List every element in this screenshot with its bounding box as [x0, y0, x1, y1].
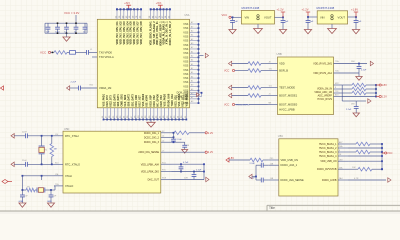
svg-text:10K: 10K	[352, 167, 356, 169]
svg-text:VCC: VCC	[40, 51, 46, 55]
svg-text:L2: L2	[162, 136, 164, 138]
svg-text:VSS: VSS	[183, 85, 188, 88]
svg-text:MCP/NT-1308: MCP/NT-1308	[242, 6, 260, 10]
svg-text:VSS: VSS	[183, 77, 188, 80]
svg-text:IO5_VSP0: IO5_VSP0	[146, 94, 149, 106]
svg-text:VSS: VSS	[183, 27, 188, 30]
svg-text:AF7: AF7	[339, 141, 342, 144]
svg-text:VDD_USB_UN: VDD_USB_UN	[320, 160, 336, 163]
svg-text:VDD_3V3_CPU_IO8: VDD_3V3_CPU_IO8	[140, 21, 143, 45]
svg-text:MCP/NT-1308: MCP/NT-1308	[317, 6, 335, 10]
svg-text:8: 8	[335, 87, 336, 89]
svg-text:RTC_XTALO: RTC_XTALO	[65, 163, 80, 167]
svg-text:IO17_U2T: IO17_U2T	[139, 95, 142, 107]
svg-text:1.8V: 1.8V	[229, 156, 235, 160]
svg-text:VSS: VSS	[183, 81, 188, 84]
svg-text:HVCC_BIAS1_2: HVCC_BIAS1_2	[319, 147, 337, 150]
svg-text:VSS: VSS	[183, 44, 188, 47]
svg-text:VSS_PAD5: VSS_PAD5	[185, 93, 188, 106]
svg-text:VCC = 3.3V: VCC = 3.3V	[64, 11, 79, 15]
svg-text:A7: A7	[191, 21, 193, 24]
svg-text:SD0_DAT2: SD0_DAT2	[128, 94, 131, 107]
svg-text:DCDC_DIG_1: DCDC_DIG_1	[144, 132, 160, 135]
svg-text:TX0 VP/CLA: TX0 VP/CLA	[99, 55, 114, 59]
svg-text:IO21_SD1: IO21_SD1	[175, 94, 178, 106]
svg-text:VSS: VSS	[183, 73, 188, 76]
svg-text:TXD0_UA1: TXD0_UA1	[171, 93, 174, 106]
svg-text:HVCC_BIAS1_4: HVCC_BIAS1_4	[319, 155, 337, 158]
svg-text:BOOT_MODE1: BOOT_MODE1	[279, 94, 298, 98]
svg-text:HVCC_LPBB: HVCC_LPBB	[279, 108, 295, 112]
svg-text:U5B: U5B	[277, 52, 282, 56]
svg-text:A1: A1	[191, 71, 193, 74]
svg-text:BOOT_MODE0: BOOT_MODE0	[279, 103, 298, 107]
svg-text:HVCC_BIAS1_3: HVCC_BIAS1_3	[319, 151, 337, 154]
svg-text:K10: K10	[55, 163, 58, 165]
svg-text:VDD_RVVS_2M1: VDD_RVVS_2M1	[313, 63, 332, 66]
svg-text:L5: L5	[162, 140, 164, 142]
svg-text:RXD0_UA0: RXD0_UA0	[167, 93, 170, 106]
svg-text:A2: A2	[191, 38, 193, 41]
svg-text:VCC: VCC	[224, 104, 229, 107]
svg-text:U18: U18	[339, 159, 342, 161]
svg-text:VSS: VSS	[183, 69, 188, 72]
svg-text:+3V3: +3V3	[156, 3, 162, 5]
svg-text:BGR_B: BGR_B	[279, 69, 288, 73]
svg-text:IO22_SC1: IO22_SC1	[182, 94, 185, 106]
svg-text:DCDC_DIG_2: DCDC_DIG_2	[144, 136, 160, 139]
svg-text:VSS_PAD3: VSS_PAD3	[164, 93, 167, 106]
svg-text:A3: A3	[191, 100, 193, 103]
svg-text:SD2_DAT0: SD2_DAT0	[113, 94, 116, 107]
svg-text:4.7uF: 4.7uF	[183, 162, 189, 164]
svg-text:2.2uF: 2.2uF	[250, 163, 256, 165]
svg-text:J1: J1	[269, 94, 271, 96]
svg-text:A4: A4	[191, 34, 193, 37]
svg-text:+1.8V: +1.8V	[351, 8, 358, 12]
svg-text:A1: A1	[191, 63, 193, 66]
svg-text:VDD_LPBK_AVA: VDD_LPBK_AVA	[141, 163, 160, 166]
svg-text:VSS: VSS	[183, 56, 188, 59]
svg-text:VCC: VCC	[387, 151, 393, 155]
svg-text:DCDC_AVA_SENSE: DCDC_AVA_SENSE	[281, 179, 304, 182]
svg-text:RTC_XTALI: RTC_XTALI	[65, 134, 79, 138]
svg-text:A1: A1	[191, 50, 193, 53]
svg-text:2.2uF: 2.2uF	[361, 70, 367, 72]
svg-text:2.2uF: 2.2uF	[196, 169, 202, 171]
svg-text:VSS: VSS	[183, 31, 188, 34]
svg-text:2.2uF: 2.2uF	[71, 82, 77, 84]
svg-text:VSS: VSS	[183, 65, 188, 68]
svg-text:J10: J10	[55, 134, 58, 136]
svg-text:VSS: VSS	[183, 40, 188, 43]
svg-text:IO19_VS2: IO19_VS2	[153, 95, 156, 107]
svg-text:1.2V: 1.2V	[382, 95, 388, 99]
svg-text:B18: B18	[335, 95, 338, 97]
svg-text:A9: A9	[191, 42, 193, 45]
svg-text:TX0 VP/D0: TX0 VP/D0	[99, 50, 113, 54]
svg-text:A1: A1	[191, 79, 193, 82]
svg-text:VSS_PAD2: VSS_PAD2	[142, 93, 145, 106]
svg-text:DCDC_IN_LX_SW_2: DCDC_IN_LX_SW_2	[169, 21, 172, 46]
svg-text:4.7R: 4.7R	[354, 178, 359, 180]
svg-text:T18: T18	[335, 91, 338, 93]
svg-text:K2: K2	[162, 131, 164, 133]
svg-text:VDD_USB_UN: VDD_USB_UN	[281, 158, 299, 162]
svg-text:A3: A3	[191, 88, 193, 91]
svg-text:VIN: VIN	[320, 15, 325, 19]
svg-text:VCC: VCC	[224, 70, 229, 73]
svg-text:VOUT: VOUT	[264, 15, 272, 19]
svg-text:+1.2V: +1.2V	[277, 8, 284, 12]
svg-text:VSS: VSS	[183, 23, 188, 26]
svg-text:A7: A7	[191, 67, 193, 70]
svg-text:1.8V: 1.8V	[382, 83, 388, 87]
svg-text:U5A: U5A	[185, 14, 190, 17]
svg-text:VDD_LPBK_DIG: VDD_LPBK_DIG	[141, 171, 159, 174]
svg-text:A9: A9	[191, 84, 193, 87]
svg-text:A7: A7	[191, 46, 193, 49]
svg-text:1.2V: 1.2V	[208, 150, 214, 154]
svg-text:2.2uF: 2.2uF	[250, 178, 256, 180]
svg-text:A2: A2	[191, 30, 193, 33]
svg-text:22nF: 22nF	[22, 160, 27, 162]
svg-text:DCDC_LNXB: DCDC_LNXB	[322, 179, 337, 182]
svg-text:TEST_MODE: TEST_MODE	[279, 86, 295, 90]
svg-text:A4: A4	[191, 75, 193, 78]
svg-text:DCDC_AVA_1: DCDC_AVA_1	[281, 163, 298, 167]
svg-text:VSS: VSS	[183, 48, 188, 51]
svg-text:A2: A2	[191, 54, 193, 57]
svg-text:U5C: U5C	[278, 134, 283, 138]
svg-text:VSS: VSS	[183, 35, 188, 38]
svg-text:+1.2V: +1.2V	[302, 8, 309, 12]
svg-text:VSS: VSS	[183, 60, 188, 63]
svg-text:SD3_DAT1: SD3_DAT1	[117, 94, 120, 107]
svg-text:A7: A7	[191, 25, 193, 28]
svg-text:L7: L7	[162, 150, 164, 152]
svg-text:VDDA_1M: VDDA_1M	[99, 86, 111, 90]
svg-text:1A4: 1A4	[339, 177, 342, 180]
svg-text:PU1: PU1	[162, 162, 166, 164]
svg-text:Title: Title	[269, 206, 275, 210]
svg-text:VIN: VIN	[245, 15, 250, 19]
svg-text:SD1_DAT3: SD1_DAT3	[131, 94, 134, 107]
svg-text:HVCC_RVVS: HVCC_RVVS	[317, 98, 332, 101]
svg-text:DAC_OUT: DAC_OUT	[148, 179, 160, 182]
svg-text:DCDC_DIG_3: DCDC_DIG_3	[144, 141, 160, 144]
svg-text:VDD_RVVS_A1A: VDD_RVVS_A1A	[313, 72, 332, 75]
svg-text:CMD_SDI1: CMD_SDI1	[121, 94, 124, 107]
svg-text:PV1: PV1	[162, 170, 166, 172]
svg-text:DNI: DNI	[351, 104, 355, 106]
svg-text:2.2uF: 2.2uF	[177, 139, 183, 141]
svg-text:IO16_U2R: IO16_U2R	[135, 95, 138, 107]
svg-text:VOUT: VOUT	[338, 15, 346, 19]
svg-text:DCDC_RVVSTCB: DCDC_RVVSTCB	[317, 168, 337, 171]
svg-text:VCC: VCC	[222, 13, 228, 17]
svg-text:VDD: VDD	[279, 62, 285, 66]
svg-text:IO18_VSP: IO18_VSP	[149, 95, 152, 107]
svg-text:IO23_VS3: IO23_VS3	[160, 95, 163, 107]
svg-text:J8: J8	[269, 62, 271, 64]
svg-text:HVCC_RVVS: HVCC_RVVS	[236, 104, 250, 106]
svg-text:1.2V: 1.2V	[208, 131, 214, 135]
svg-text:22nF: 22nF	[22, 132, 27, 134]
svg-text:IO21_DT2: IO21_DT2	[106, 95, 109, 107]
svg-text:HVCC_BIAS1_1: HVCC_BIAS1_1	[319, 143, 337, 146]
svg-text:T21: T21	[269, 86, 272, 88]
svg-text:XTALI: XTALI	[65, 174, 72, 178]
svg-text:IO22_DT3: IO22_DT3	[110, 95, 113, 107]
svg-text:T20: T20	[269, 69, 272, 71]
svg-text:10R: 10R	[184, 177, 188, 179]
svg-text:+3V3: +3V3	[124, 3, 130, 5]
svg-text:CLK_SDI2: CLK_SDI2	[124, 94, 127, 106]
svg-text:U5D: U5D	[64, 127, 69, 131]
svg-text:24DC_DIG_SENSE: 24DC_DIG_SENSE	[138, 152, 159, 154]
svg-text:A4: A4	[191, 59, 193, 62]
svg-text:NC_GPIO0: NC_GPIO0	[157, 94, 160, 107]
svg-text:VSS_PAD1: VSS_PAD1	[103, 93, 106, 106]
svg-text:PK1: PK1	[270, 158, 274, 160]
svg-text:A5: A5	[191, 92, 193, 95]
svg-text:1M: 1M	[54, 149, 57, 151]
svg-text:W18: W18	[162, 178, 166, 180]
svg-text:8: 8	[339, 150, 340, 152]
svg-text:2.2uF: 2.2uF	[346, 109, 352, 111]
svg-text:M8: M8	[269, 103, 272, 105]
svg-text:VSS: VSS	[183, 52, 188, 55]
svg-text:VSS_PAD4: VSS_PAD4	[178, 93, 181, 106]
svg-text:DNI: DNI	[351, 61, 355, 63]
svg-text:M22: M22	[335, 83, 339, 85]
svg-text:XTALO: XTALO	[65, 184, 73, 188]
